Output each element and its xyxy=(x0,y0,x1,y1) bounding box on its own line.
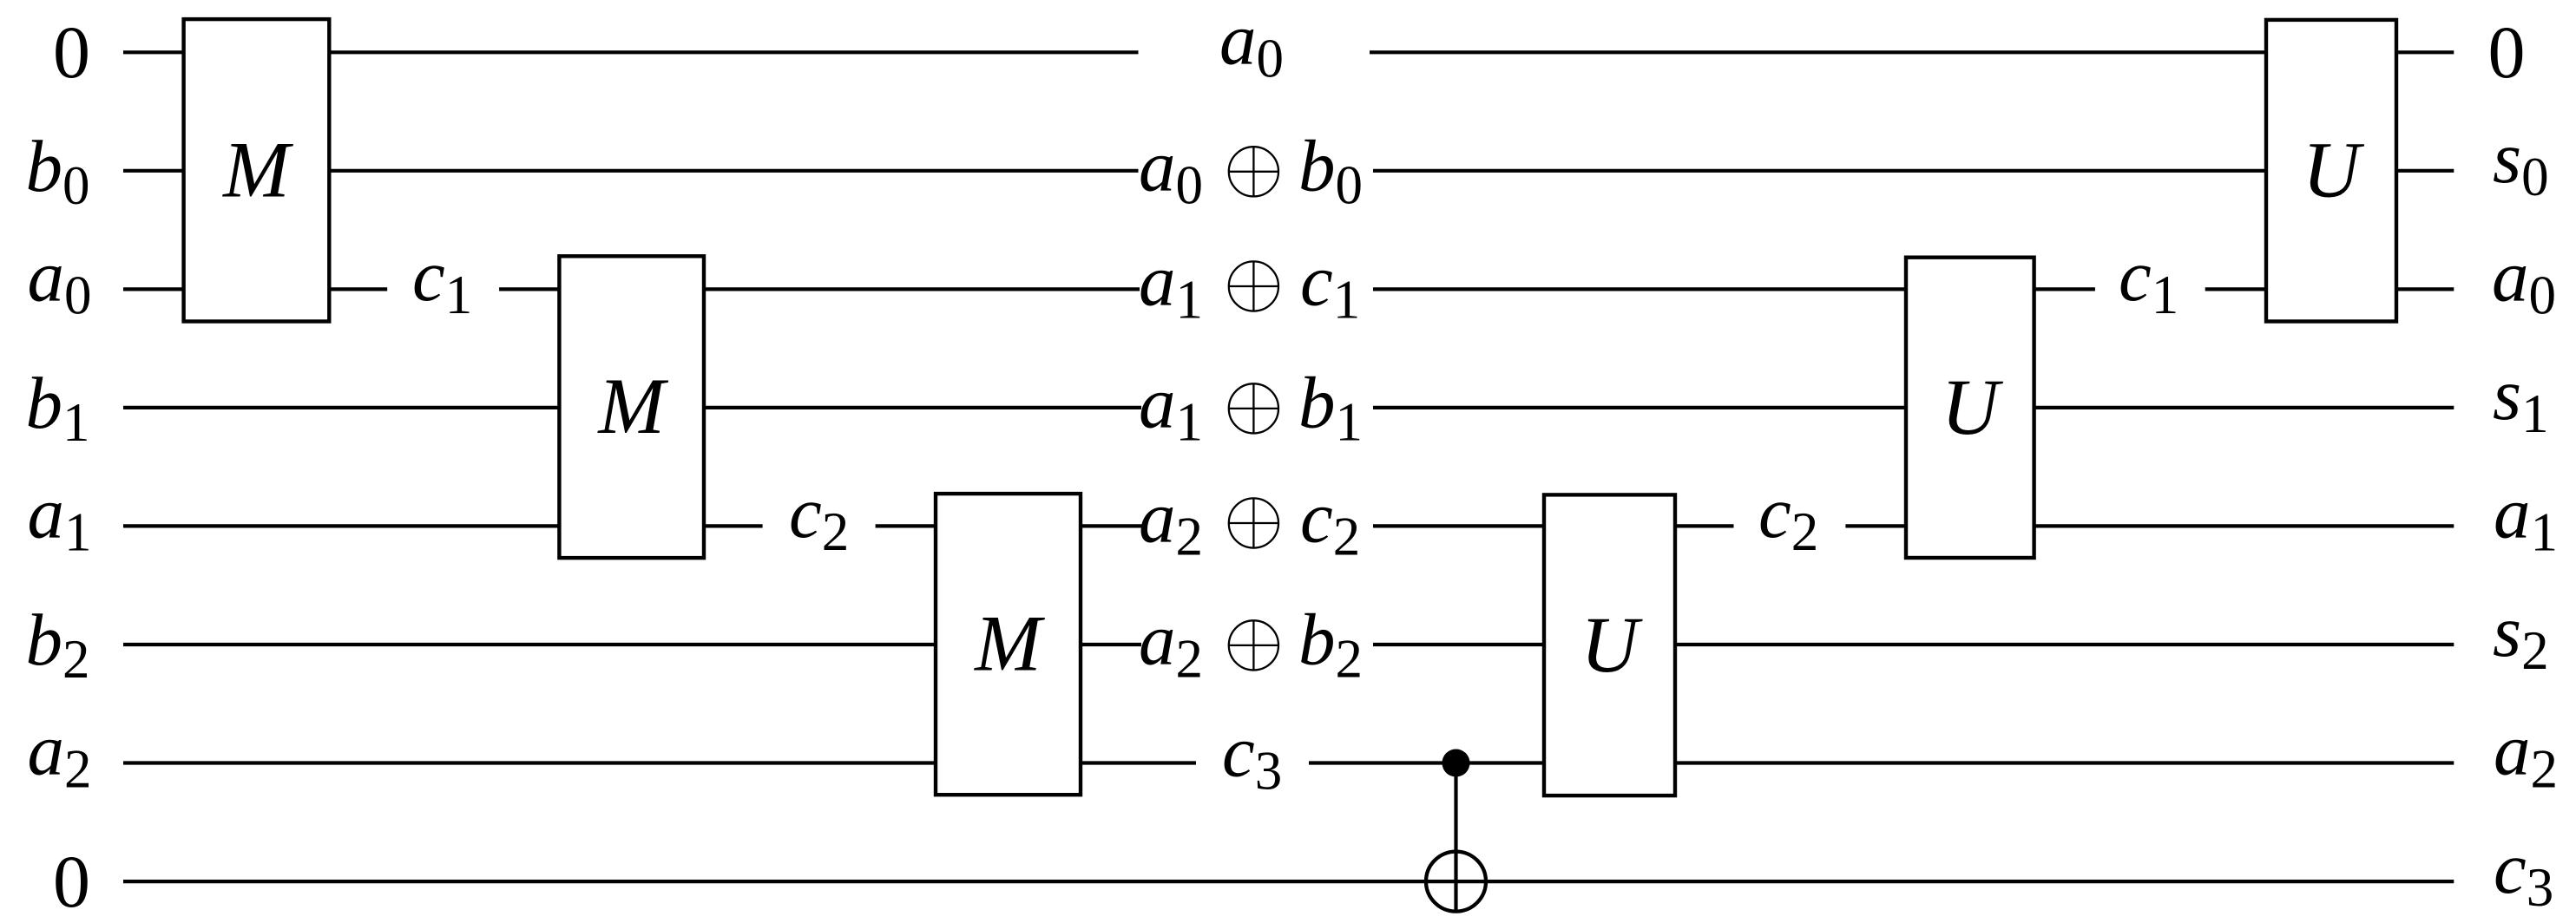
svg-text:s2: s2 xyxy=(2493,591,2549,681)
svg-text:a1: a1 xyxy=(1139,240,1203,331)
wire q4 (a1) segment 6 xyxy=(1675,524,1734,527)
wire q2 (a0) segment 7 xyxy=(2205,287,2266,291)
wire q3 (b1) segment 2 xyxy=(704,406,1141,409)
gate box M3 (M) xyxy=(936,494,1081,795)
svg-text:0: 0 xyxy=(53,840,90,923)
gate box M1 (M) xyxy=(184,19,330,321)
wire q6 (a2) segment 1 xyxy=(123,761,936,764)
wire q5 (b2) segment 3 xyxy=(1373,643,1544,646)
svg-text:a2: a2 xyxy=(2494,710,2558,800)
svg-text:c2: c2 xyxy=(789,472,849,562)
gate box M2 (M) xyxy=(559,256,704,558)
wire q2 (a0) segment 3 xyxy=(499,287,559,291)
svg-text:a1: a1 xyxy=(2494,472,2558,562)
wire q4 (a1) segment 8 xyxy=(2034,524,2454,527)
svg-text:c1: c1 xyxy=(1300,240,1360,331)
wire q4 (a1) segment 1 xyxy=(123,524,559,527)
svg-text:c3: c3 xyxy=(1222,711,1282,802)
wire q2 (a0) segment 4 xyxy=(704,287,1140,291)
wire q6 (a2) segment 3 xyxy=(1309,761,1544,764)
wire q2 (a0) segment 5 xyxy=(1373,287,1906,291)
wire q1 (b0) segment 3 xyxy=(1373,169,2266,173)
wire q0 (|0> ancilla) segment 3 xyxy=(1370,50,2266,54)
wire q2 (a0) segment 6 xyxy=(2034,287,2095,291)
svg-text:s1: s1 xyxy=(2493,354,2549,444)
svg-text:c1: c1 xyxy=(2119,235,2178,325)
gate box U3 (U) xyxy=(1544,494,1675,795)
oplus symbol wire 6 xyxy=(1229,620,1278,670)
svg-text:U: U xyxy=(2303,126,2365,214)
wire q1 (b0) segment 1 xyxy=(123,169,184,173)
svg-text:a1: a1 xyxy=(1139,362,1203,452)
wire q4 (a1) segment 2 xyxy=(704,524,763,527)
svg-text:M: M xyxy=(596,362,668,450)
svg-text:b2: b2 xyxy=(26,599,90,690)
svg-text:b0: b0 xyxy=(1298,125,1363,215)
gate box U2 (U) xyxy=(1906,258,2034,558)
svg-text:a1: a1 xyxy=(28,472,92,562)
wire q2 (a0) segment 8 xyxy=(2396,287,2454,291)
wire q3 (b1) segment 3 xyxy=(1373,406,1906,409)
wire q0 (|0> ancilla) segment 4 xyxy=(2396,50,2454,54)
wire q4 (a1) segment 4 xyxy=(1081,524,1144,527)
wire q2 (a0) segment 2 xyxy=(329,287,387,291)
wire q3 (b1) segment 1 xyxy=(123,406,559,409)
wire q4 (a1) segment 7 xyxy=(1845,524,1906,527)
svg-text:0: 0 xyxy=(53,10,90,94)
svg-text:a0: a0 xyxy=(2492,235,2556,325)
oplus symbol wire 4 xyxy=(1229,383,1278,433)
wire q2 (a0) segment 1 xyxy=(123,287,184,291)
svg-text:a2: a2 xyxy=(1139,599,1203,689)
wire q5 (b2) segment 4 xyxy=(1675,643,2454,646)
gate box U1 (U) xyxy=(2266,20,2396,322)
svg-text:b2: b2 xyxy=(1298,599,1363,689)
svg-text:a2: a2 xyxy=(28,710,92,800)
CNOT control dot on wire a2 xyxy=(1442,750,1470,777)
svg-text:a0: a0 xyxy=(1139,125,1203,215)
wire q7 (|0> carry out) segment 1 xyxy=(123,880,2454,883)
svg-text:a0: a0 xyxy=(1219,0,1284,88)
svg-text:c3: c3 xyxy=(2494,828,2553,918)
svg-text:b0: b0 xyxy=(26,126,90,216)
wire q5 (b2) segment 2 xyxy=(1081,643,1141,646)
wire q3 (b1) segment 4 xyxy=(2034,406,2454,409)
svg-text:s0: s0 xyxy=(2493,117,2549,207)
oplus symbol wire 5 xyxy=(1229,498,1278,547)
svg-text:c2: c2 xyxy=(1300,477,1360,567)
oplus symbol wire 3 xyxy=(1229,261,1278,311)
svg-text:U: U xyxy=(1580,600,1643,689)
wire q6 (a2) segment 2 xyxy=(1081,761,1196,764)
wire q5 (b2) segment 1 xyxy=(123,643,936,646)
svg-text:c1: c1 xyxy=(412,235,472,325)
wire q4 (a1) segment 3 xyxy=(876,524,936,527)
svg-text:U: U xyxy=(1942,363,2004,451)
svg-text:a2: a2 xyxy=(1139,477,1203,567)
oplus symbol wire 2 xyxy=(1229,147,1278,196)
svg-text:M: M xyxy=(221,125,293,213)
wire q1 (b0) segment 4 xyxy=(2396,169,2454,173)
svg-text:a0: a0 xyxy=(28,235,92,325)
svg-text:c2: c2 xyxy=(1758,472,1818,562)
svg-text:b1: b1 xyxy=(26,363,90,453)
wire q0 (|0> ancilla) segment 2 xyxy=(329,50,1138,54)
CNOT vertical wire xyxy=(1454,763,1457,912)
svg-text:b1: b1 xyxy=(1298,362,1363,452)
wire q1 (b0) segment 2 xyxy=(329,169,1138,173)
svg-text:0: 0 xyxy=(2488,10,2526,94)
svg-text:M: M xyxy=(973,599,1045,688)
wire q4 (a1) segment 5 xyxy=(1373,524,1544,527)
wire q0 (|0> ancilla) segment 1 xyxy=(123,50,184,54)
CNOT target (xor) on wire c3 xyxy=(1426,852,1486,912)
wire q6 (a2) segment 4 xyxy=(1675,761,2454,764)
